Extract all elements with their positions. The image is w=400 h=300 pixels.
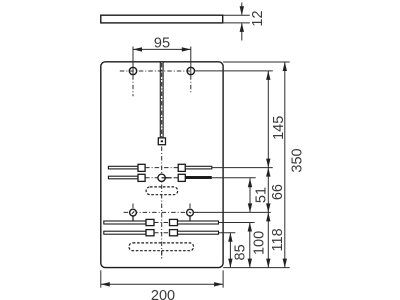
centreline through top holes [120, 70, 190, 72]
row2 circle right slot mark [189, 212, 191, 213]
row2 left screw lower [146, 230, 154, 236]
central slot [160, 62, 163, 137]
dimension 100 [248, 223, 252, 268]
row2 centreline through circles [124, 211, 198, 213]
dashed breaker outline row2 [129, 243, 194, 251]
slot end square inner mark [161, 140, 163, 142]
svg-text:200: 200 [151, 288, 175, 300]
row2 circle left slot mark [132, 211, 134, 213]
svg-text:51: 51 [254, 187, 270, 203]
row1 left terminal screw lower [138, 174, 145, 181]
row2 right screw lower [170, 230, 178, 236]
row2 right screw upper [170, 219, 178, 225]
dimension 200 [101, 282, 223, 286]
slot centreline [161, 63, 163, 137]
extension line bottom edge [223, 267, 290, 269]
row1 circle centre tick [162, 177, 172, 179]
row1 right terminal screw upper [178, 164, 185, 171]
dashed breaker outline row1 [146, 187, 178, 195]
row2 circle stems [133, 215, 190, 221]
row2 left bar upper [104, 221, 146, 224]
row2 right bar lower [178, 231, 219, 234]
svg-text:95: 95 [154, 36, 170, 52]
row1 centreline upper [145, 167, 178, 169]
row2 circle left [130, 209, 137, 216]
extension lines for 12 [223, 15, 250, 23]
mounting hole right [187, 67, 194, 74]
row1 centreline lower [145, 177, 178, 179]
extension line row1 upper bar [212, 167, 273, 169]
dimension 145-66-118 chain line [266, 71, 270, 268]
svg-text:100: 100 [251, 231, 267, 255]
plate outline [101, 62, 223, 268]
svg-text:350: 350 [290, 148, 306, 172]
extension lines for 200 [101, 270, 223, 287]
svg-text:66: 66 [270, 184, 286, 200]
row1 right terminal screw lower [178, 174, 185, 181]
row1 left terminal bar lower [108, 176, 138, 179]
row2 right bar upper [178, 221, 219, 224]
svg-text:85: 85 [233, 244, 249, 260]
dimension 95 [133, 47, 191, 51]
row2 left bar lower [104, 231, 146, 234]
extension line row2 lower bar [219, 232, 236, 234]
row2 centreline between screws upper [154, 222, 170, 224]
extension line row2 upper bar [219, 222, 255, 224]
dimension 350 [283, 62, 287, 268]
row2 circle right [187, 209, 194, 216]
extension line row1 lower bar [212, 177, 256, 179]
svg-text:118: 118 [270, 228, 286, 251]
row1 left terminal screw upper [138, 164, 145, 171]
svg-text:12: 12 [250, 10, 266, 26]
mounting hole left [129, 67, 136, 74]
main vertical centreline [161, 147, 163, 259]
extension line top edge [223, 61, 290, 63]
row1 right solid bar lower [185, 176, 212, 179]
dimension 51 [248, 178, 252, 212]
centreline stub below row2 [161, 251, 163, 259]
extension lines for 95 [133, 47, 191, 75]
extension line hole centre [194, 70, 272, 72]
slot end square [158, 138, 165, 145]
row2 centreline between screws lower [154, 232, 170, 234]
row2 circle stubs above [133, 204, 190, 210]
dimension 85 [228, 233, 232, 268]
row1 centre circle [158, 174, 165, 181]
row1 left terminal bar upper [108, 166, 138, 169]
dimension 12 [240, 3, 244, 41]
row1 right terminal bar upper [185, 166, 212, 169]
extension line row2 circles [193, 211, 271, 213]
row2 left screw upper [146, 219, 154, 225]
side view plate (top) [101, 15, 223, 23]
svg-text:145: 145 [271, 116, 287, 140]
hole centreline stubs below [133, 75, 191, 96]
